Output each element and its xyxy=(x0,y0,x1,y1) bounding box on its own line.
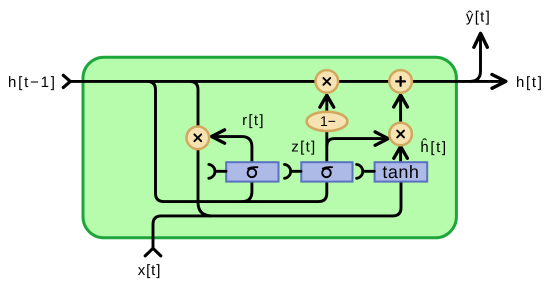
join crescent for tanh xyxy=(357,164,375,178)
one-minus ellipse xyxy=(307,112,348,131)
tanh box xyxy=(375,162,428,181)
wire: multiply-right up to plus xyxy=(399,96,402,122)
wire: sigma-r bottom feed merging into bus A xyxy=(242,182,252,202)
multiply node right xyxy=(389,123,412,146)
sigma-r gate box xyxy=(226,162,278,181)
sigma-z gate box xyxy=(301,162,352,181)
arrowhead z into multiply-right xyxy=(375,132,388,145)
wire: h branch through multiply-left down into bus B xyxy=(190,81,212,216)
arrowhead r[t] xyxy=(212,130,225,143)
cell body (green rounded box) xyxy=(83,57,456,238)
input fork x[t] xyxy=(145,248,161,256)
svg-text:ĥ[t]: ĥ[t] xyxy=(420,138,447,156)
svg-text:h[t]: h[t] xyxy=(516,74,544,91)
arrowhead tanh into multiply-right xyxy=(394,147,408,159)
svg-text:1−: 1− xyxy=(320,113,336,129)
svg-text:r[t]: r[t] xyxy=(242,112,265,129)
arrowhead into plus xyxy=(394,95,408,107)
multiply node top (x circle on h line) xyxy=(316,70,339,93)
arrowhead into multiply-top xyxy=(320,95,334,107)
join crescent for sigma-z xyxy=(285,164,302,178)
wire: tanh output up to multiply-right xyxy=(399,148,402,164)
plus node (+ circle on h line) xyxy=(389,70,412,93)
wire: x[t] up, along bus B, up into tanh bottom xyxy=(153,182,401,249)
svg-text:h[t−1]: h[t−1] xyxy=(8,74,57,91)
wire: z branch right to multiply-right xyxy=(327,139,387,147)
svg-text:tanh: tanh xyxy=(382,162,419,182)
svg-text:z[t]: z[t] xyxy=(291,139,316,156)
multiply node left xyxy=(187,127,210,150)
wire: h[t-1] main horizontal line to h[t] xyxy=(70,80,505,83)
arrowhead y-hat xyxy=(474,33,487,47)
arrowhead h[t] xyxy=(492,75,506,89)
svg-text:ŷ[t]: ŷ[t] xyxy=(466,8,491,25)
svg-text:x[t]: x[t] xyxy=(138,262,162,279)
wire: 1-minus up to multiply-top xyxy=(325,96,328,111)
input chevron h[t-1] xyxy=(63,75,70,87)
wire: r[t] from sigma-r top to multiply-left xyxy=(213,137,252,162)
join crescent for sigma-r xyxy=(209,164,226,178)
wire: z path up from sigma-z to 1-minus ellipse xyxy=(325,122,328,162)
wire: h branch down to bus A and up into sigma-z bottom xyxy=(147,81,327,201)
wire: y-hat branch up xyxy=(470,35,481,82)
